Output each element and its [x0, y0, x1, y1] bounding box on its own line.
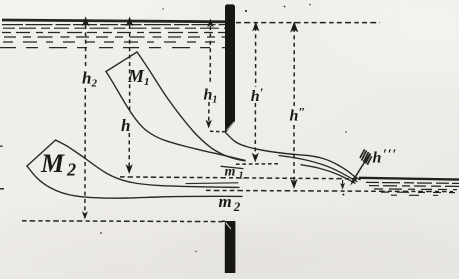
svg-text:h: h — [121, 116, 130, 135]
